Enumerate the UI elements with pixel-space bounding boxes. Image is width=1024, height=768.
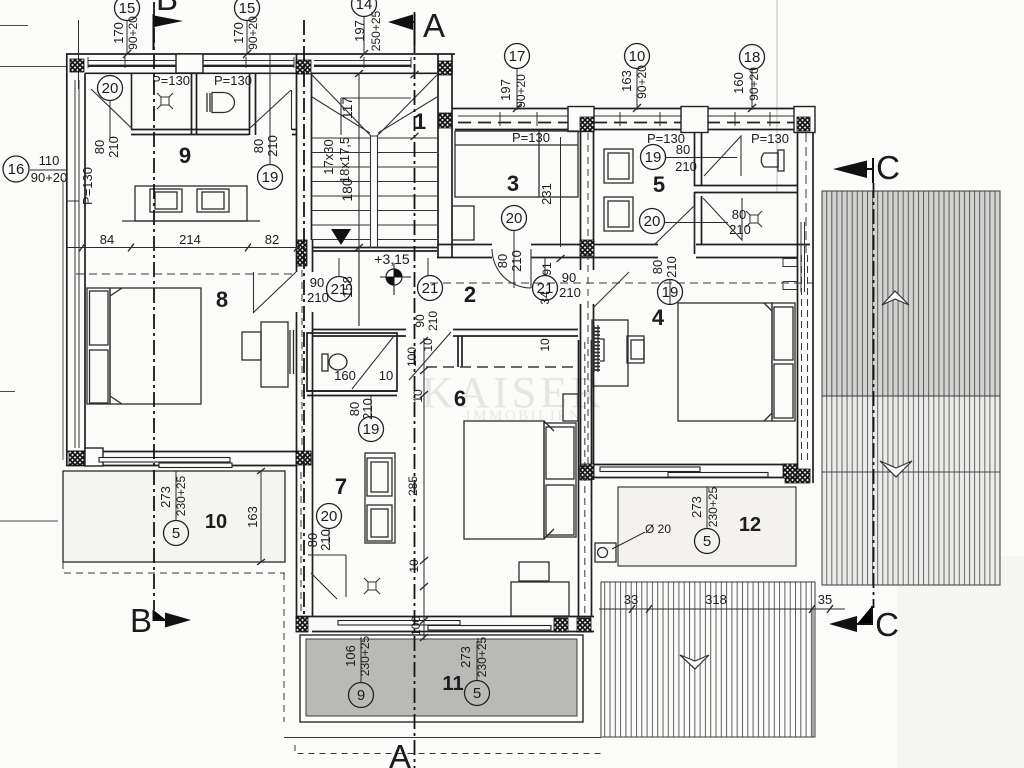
svg-text:210: 210 [265, 135, 280, 157]
terrace right lower (hatched) [822, 396, 1000, 585]
svg-text:B: B [130, 602, 152, 639]
leader circle 16 [30, 169, 66, 171]
door nook room 9 [250, 90, 292, 130]
svg-text:C: C [875, 606, 899, 643]
svg-text:82: 82 [265, 232, 279, 247]
svg-text:90+20: 90+20 [747, 67, 761, 101]
svg-text:163: 163 [619, 70, 634, 92]
hatched piers [69, 59, 810, 632]
door shower right [703, 198, 742, 240]
wall between bathrooms top-left [192, 73, 197, 135]
svg-text:80: 80 [732, 207, 746, 222]
section line A [414, 12, 416, 768]
svg-text:100: 100 [409, 616, 423, 636]
window glazing lines [63, 57, 805, 460]
svg-text:5: 5 [653, 172, 665, 197]
door room 4 [593, 272, 629, 308]
svg-text:P=130: P=130 [80, 167, 95, 205]
svg-text:P=130: P=130 [512, 130, 550, 145]
bench room 6 [511, 582, 569, 616]
section C bottom arrow [857, 606, 872, 624]
door room 7 shower [308, 555, 346, 599]
wall rooms 5/4 divider [581, 109, 594, 481]
svg-text:197: 197 [498, 79, 513, 101]
svg-text:2: 2 [464, 282, 476, 307]
white piers [85, 54, 815, 466]
door bath1 top-left [91, 89, 133, 130]
svg-text:20: 20 [102, 80, 119, 97]
nightstand room 6 [563, 394, 578, 421]
svg-text:273: 273 [158, 486, 173, 508]
svg-text:91: 91 [540, 262, 554, 276]
svg-text:9: 9 [179, 143, 191, 168]
leaders top circles [79, 16, 365, 89]
wardrobe room 4 [592, 320, 628, 386]
stair fan lines [312, 97, 437, 133]
balcony 10 slab [63, 471, 285, 562]
svg-text:10: 10 [407, 559, 421, 573]
svg-text:84: 84 [100, 232, 114, 247]
svg-text:180: 180 [339, 178, 355, 202]
svg-text:C: C [876, 149, 900, 186]
wall rooms 2/6 divider [312, 330, 578, 337]
svg-text:170: 170 [111, 22, 126, 44]
svg-text:33: 33 [624, 592, 638, 607]
stair treads [312, 138, 371, 240]
svg-text:5: 5 [473, 685, 481, 702]
wall room 4 bottom [594, 465, 797, 478]
svg-text:35: 35 [818, 592, 832, 607]
svg-text:210: 210 [559, 285, 581, 300]
dim extension right bottom [812, 609, 814, 737]
wardrobe room 5 [604, 149, 633, 183]
svg-text:10: 10 [379, 368, 393, 383]
leaders to door dims [110, 54, 270, 165]
svg-text:90+20: 90+20 [126, 16, 140, 50]
svg-text:10: 10 [205, 511, 227, 533]
scan artifact line top right [776, 0, 778, 192]
svg-text:15: 15 [239, 0, 256, 17]
svg-text:80: 80 [676, 142, 690, 157]
svg-text:18x17,5: 18x17,5 [337, 137, 352, 183]
stair dim line 180 [358, 73, 360, 326]
wall room 6 left [458, 336, 462, 367]
wall wc box [307, 333, 397, 391]
counter room 7 [365, 453, 395, 543]
svg-text:231: 231 [539, 183, 554, 205]
svg-text:117: 117 [339, 97, 355, 120]
svg-text:230+25: 230+25 [706, 486, 720, 527]
wall bath 5 divider horizontal [694, 186, 797, 193]
watermark KAISER IMMOBILIEN [422, 368, 605, 424]
svg-text:210: 210 [307, 290, 329, 305]
terrace bottom (hatched) [601, 582, 815, 737]
roof overhang dashed outline bottom-left [63, 562, 601, 754]
bed room 6 [464, 421, 544, 539]
wall top-right exterior [452, 109, 814, 130]
svg-text:80: 80 [650, 260, 665, 274]
wall stairwell left [297, 54, 312, 240]
door wc mid [352, 336, 394, 389]
svg-text:10: 10 [629, 48, 646, 65]
svg-text:18: 18 [744, 49, 761, 66]
svg-text:230+25: 230+25 [358, 635, 372, 676]
svg-text:4: 4 [652, 305, 665, 330]
svg-text:11: 11 [442, 673, 463, 695]
svg-text:210: 210 [664, 256, 679, 278]
stair winder diagonals [312, 75, 437, 136]
svg-text:214: 214 [179, 232, 201, 247]
chevron down arrow right terrace [880, 461, 912, 477]
svg-text:90+20: 90+20 [31, 170, 68, 185]
wall bath1 left [131, 73, 133, 129]
svg-text:34: 34 [538, 291, 552, 305]
leader drain [612, 532, 645, 549]
section B bottom arrow [154, 610, 167, 620]
svg-text:9: 9 [357, 687, 365, 704]
svg-text:A: A [423, 7, 445, 44]
stair dim frame [341, 98, 411, 135]
section line C [873, 183, 875, 608]
svg-text:210: 210 [426, 311, 440, 331]
svg-text:273: 273 [689, 496, 704, 518]
wall mid vertical rooms 8/7 [297, 240, 313, 632]
svg-text:20: 20 [644, 213, 661, 230]
svg-text:210: 210 [675, 159, 697, 174]
svg-text:273: 273 [458, 646, 473, 668]
svg-text:100: 100 [405, 347, 419, 367]
svg-text:10: 10 [538, 338, 552, 352]
floor drain balcony 12 [595, 543, 616, 562]
svg-text:17: 17 [509, 48, 526, 65]
svg-text:A: A [389, 738, 411, 768]
svg-text:80: 80 [92, 140, 107, 154]
bed room 4 [678, 303, 772, 421]
svg-text:17x30: 17x30 [321, 139, 336, 174]
svg-text:210: 210 [318, 529, 333, 551]
wall room 6 right [579, 340, 592, 617]
sliding door room 4 to balcony 12 [600, 467, 768, 477]
svg-text:230+25: 230+25 [475, 636, 489, 677]
toilet bath top-right [778, 150, 784, 171]
section A top arrow [412, 14, 415, 45]
svg-text:90: 90 [310, 275, 324, 290]
section line B left [153, 2, 155, 610]
shower symbol right [746, 211, 762, 227]
sideboard room 9 [135, 186, 247, 221]
svg-text:163: 163 [245, 506, 260, 528]
door room 3 arc [492, 249, 531, 288]
thin leader lines page left [0, 66, 66, 68]
svg-text:1: 1 [414, 109, 426, 134]
toilet bath top-left [207, 93, 210, 112]
section C top arrow [867, 158, 873, 183]
door room 8 [253, 272, 296, 313]
door bath right [704, 136, 741, 176]
chevron down arrow bottom terrace [680, 655, 709, 669]
svg-text:19: 19 [262, 169, 279, 186]
svg-text:20: 20 [506, 210, 523, 227]
svg-text:90+20: 90+20 [635, 65, 649, 99]
svg-text:210: 210 [106, 136, 121, 158]
wall bottom of room 8 [66, 452, 296, 466]
svg-text:10: 10 [411, 389, 425, 403]
toilet wc mid [322, 354, 328, 371]
wall bath2 right [250, 73, 256, 135]
svg-text:80: 80 [495, 254, 510, 268]
svg-text:5: 5 [703, 533, 711, 550]
svg-text:12: 12 [739, 514, 761, 536]
svg-text:90+20: 90+20 [246, 16, 260, 50]
dashed construction lines [76, 133, 814, 615]
balcony 12 slab [618, 487, 796, 566]
svg-text:210: 210 [729, 222, 751, 237]
svg-text:250+25: 250+25 [369, 10, 383, 51]
svg-text:21: 21 [422, 280, 439, 297]
svg-text:197: 197 [352, 20, 367, 42]
shower symbol bath1 [157, 93, 173, 109]
dim line 231 room3 [545, 137, 577, 247]
ticks on section A chain [423, 338, 425, 640]
svg-text:110: 110 [39, 153, 60, 168]
svg-text:230+25: 230+25 [174, 475, 188, 516]
svg-text:90+20: 90+20 [514, 74, 528, 108]
partition hall edge [358, 251, 360, 326]
svg-text:19: 19 [662, 284, 679, 301]
svg-text:7: 7 [335, 474, 347, 499]
section B top arrow [153, 14, 155, 50]
svg-text:106: 106 [343, 645, 358, 667]
svg-text:80: 80 [251, 139, 266, 153]
svg-text:3: 3 [507, 171, 519, 196]
dim line 33/318/35 [599, 608, 845, 610]
svg-text:210: 210 [360, 398, 375, 420]
door room 5 [655, 206, 695, 244]
svg-text:19: 19 [645, 149, 662, 166]
wall below bathrooms top-left [131, 130, 297, 135]
svg-text:P=130: P=130 [152, 73, 190, 88]
wall bottom rooms 7/6 [296, 617, 594, 632]
level marker +3,15 [380, 263, 411, 295]
svg-text:285: 285 [406, 476, 420, 496]
svg-text:170: 170 [231, 22, 246, 44]
svg-text:B: B [156, 0, 178, 17]
door room 6 [409, 332, 451, 380]
chevron up arrow right terrace [882, 291, 909, 305]
stair center stringer [371, 136, 378, 248]
dim 163 vertical balcony10 [253, 471, 285, 562]
svg-text:318: 318 [705, 592, 727, 607]
svg-text:160: 160 [731, 72, 746, 94]
wall top-left exterior [66, 54, 455, 73]
shower symbol room 7 [364, 578, 380, 594]
svg-text:160: 160 [334, 368, 356, 383]
svg-text:20: 20 [321, 508, 338, 525]
svg-text:5: 5 [172, 525, 180, 542]
svg-text:15: 15 [119, 0, 136, 17]
wall right exterior [798, 109, 814, 484]
svg-text:16: 16 [8, 161, 25, 178]
svg-text:10: 10 [421, 338, 435, 352]
terrace 11 outer border [300, 635, 583, 722]
svg-text:6: 6 [454, 386, 466, 411]
svg-text:19: 19 [363, 421, 380, 438]
svg-text:8: 8 [216, 287, 228, 312]
svg-text:90: 90 [413, 314, 427, 328]
dim line 84/214/82 [66, 247, 300, 249]
stair down arrow [331, 229, 351, 245]
svg-text:+3,15: +3,15 [374, 251, 410, 267]
svg-text:90: 90 [562, 270, 576, 285]
bed room 3 [455, 131, 578, 197]
svg-text:P=130: P=130 [214, 73, 252, 88]
radiator room 4 [593, 328, 600, 370]
svg-text:210: 210 [509, 250, 524, 272]
svg-text:P=130: P=130 [751, 131, 789, 146]
wall stair landing edge [312, 248, 437, 252]
terrace 11 gray slab [306, 639, 577, 716]
wall left exterior [67, 54, 85, 466]
sliding door rooms 7/6 to terrace 11 [338, 621, 551, 631]
svg-text:Ø 20: Ø 20 [645, 522, 671, 536]
desk room 8 [261, 322, 288, 387]
wall bath 5 divider vertical [695, 131, 702, 254]
svg-text:158: 158 [340, 276, 355, 298]
wall below rooms 3/5 [437, 245, 810, 258]
sliding door room 8 to balcony 10 [99, 458, 232, 468]
wall stairwell right / room 3 left [438, 54, 452, 258]
bed room 8 [110, 288, 201, 404]
section line B mid [303, 20, 305, 614]
terrace right upper (hatched) [822, 191, 1000, 396]
